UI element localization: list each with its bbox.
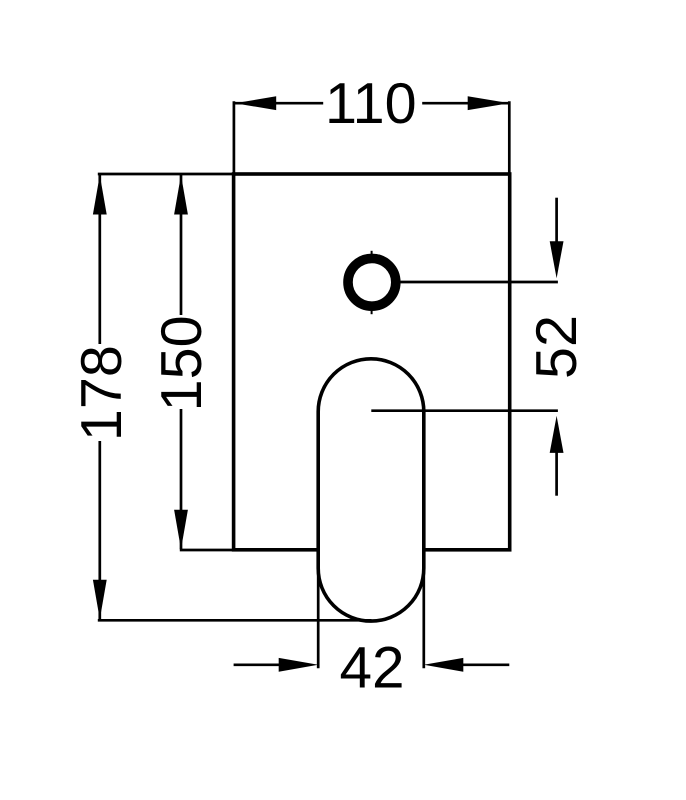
svg-text:42: 42 [339,636,404,701]
svg-text:150: 150 [150,315,214,411]
svg-text:110: 110 [325,72,417,136]
svg-text:178: 178 [70,345,134,441]
svg-text:52: 52 [525,315,589,379]
